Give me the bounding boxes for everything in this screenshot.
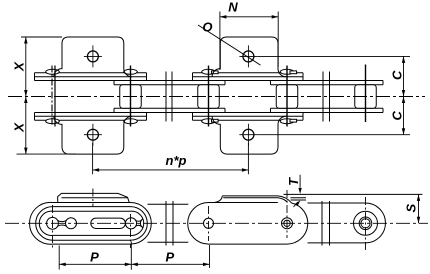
pin circle at x=365.5 (side view): [361, 219, 370, 228]
pin head (rivet) bottom at x=52.5 (plan): [46, 119, 60, 124]
pin head (rivet) bottom at x=208.5 (plan): [202, 119, 216, 124]
wire: inner plate bars top (x 114.0-225.0) (plan): [114, 81, 225, 85]
attachment plate tab lower-right (plan): [212, 116, 286, 154]
roller at pin x=208.5 (plan): [198, 85, 220, 109]
break lines right (side view): [322, 201, 330, 246]
pin head (rivet) top at x=287.0 (plan): [280, 69, 294, 74]
right attachment far tab bend lines + T extensions (side view): [291, 198, 307, 200]
pin circles at x=287 (side view): [282, 218, 293, 229]
dimension T pointer lines: [294, 175, 301, 207]
arrowheads dimension X: [24, 37, 28, 44]
attachment hole at (248.4,56.4) (plan): [243, 51, 254, 62]
slotted hole left (bone) in attachment plate: [47, 217, 59, 229]
attachment tab center mark (side view): [92, 189, 94, 208]
roller at pin x=365.5 (plan): [355, 85, 377, 109]
chain centerline (side view): [5, 222, 428, 224]
roller circle at x=365.5 (side view): [354, 211, 378, 235]
pin center marks (side view): [52, 205, 54, 250]
attachment hole at (248.4,134.7) (plan): [243, 129, 254, 140]
attachment plate tab upper-right (plan): [212, 37, 286, 77]
svg-text:X: X: [12, 61, 27, 72]
wire: inner plate bars bottom (x 270.5-383.0) (plan): [271, 108, 384, 112]
chain centerline (plan): [8, 96, 425, 98]
arrowheads dimension n*p: [93, 168, 100, 172]
inner link 1 plate visible segment (side view): [148, 204, 189, 242]
dimension N line: [220, 16, 278, 18]
pin circle at x=208.5 (side view): [204, 218, 214, 228]
pin head retainer tail at x=208.5 (plan): [212, 71, 219, 74]
svg-text:S: S: [403, 204, 418, 213]
bushing circle at x=365.5 (side view): [359, 217, 372, 230]
pin head (rivet) top at x=208.5 (plan): [202, 69, 216, 74]
dimension N extension lines: [220, 12, 278, 71]
pin head (rivet) bottom at x=287.0 (plan): [280, 119, 294, 124]
left attachment bent tab profile (side view): [58, 193, 130, 202]
wire: attachment + outer plate bars top (x 192.5-303.0) (plan): [193, 73, 304, 81]
dimension P line: [59, 263, 209, 265]
right attachment near tab platform + bends (side view): [215, 196, 292, 203]
dimension S line: [418, 194, 420, 223]
roller-width contour behind left link (side view stadium S2): [39, 211, 144, 235]
arrowheads dimension C: [402, 56, 405, 63]
pin head (rivet) bottom at x=130.5 (plan): [124, 119, 138, 124]
inner link 2 plate with right end arc (side view): [308, 203, 386, 243]
attachment hole at (92.9,134.7) (plan): [87, 129, 98, 140]
roller at pin x=287.0 (plan): [276, 85, 298, 109]
wire: attachment + outer plate bars top (x 34.5-146.5) (plan): [35, 73, 147, 81]
central slot in attachment plate: [91, 218, 126, 228]
pin at x=365.5 (plan): [365, 65, 367, 123]
arrowheads dimension N: [220, 15, 227, 19]
pin at x=130.5 (plan): [130, 66, 132, 127]
arrowheads dimension P: [59, 263, 65, 267]
wire: inner plate bars top (x 270.5-383.0) (plan): [271, 81, 384, 85]
break lines left (side view): [166, 201, 173, 246]
slotted hole right (bone) in attachment plate: [125, 218, 136, 229]
right attachment far tab long edge line (side view): [284, 193, 423, 195]
pin head retainer tail at x=287.0 (plan): [290, 71, 297, 74]
pin head (rivet) top at x=130.5 (plan): [124, 69, 138, 74]
pin at x=208.5 (plan): [208, 66, 210, 127]
svg-text:P: P: [165, 250, 174, 265]
wire: attachment + outer plate bars bottom (x 34.5-146.5) (plan): [35, 113, 147, 121]
left attachment far tab edge line (side view): [62, 197, 129, 199]
pin at x=287.0 (plan): [286, 66, 288, 127]
break lines left (plan): [166, 72, 172, 122]
svg-text:C: C: [390, 70, 405, 80]
break lines right (plan): [323, 72, 330, 122]
dimension n*p line: [93, 169, 249, 171]
svg-text:T: T: [286, 177, 301, 186]
dimension O leader line: [198, 25, 261, 65]
attachment plate tab upper-left (plan): [54, 37, 132, 77]
wire: attachment + outer plate bars bottom (x 192.5-303.0) (plan): [193, 113, 304, 121]
svg-text:P: P: [90, 250, 99, 265]
dimension X line: [25, 37, 27, 154]
svg-text:X: X: [12, 122, 27, 133]
dimension C extension lines: [258, 56, 411, 134]
svg-text:N: N: [228, 0, 238, 15]
pin head (rivet) top at x=52.5 (plan): [46, 69, 60, 74]
attachment plate tab lower-left (plan): [54, 116, 132, 154]
arrowheads dimension S: [417, 194, 420, 201]
dimension X extension lines: [17, 37, 77, 154]
svg-text:C: C: [390, 110, 405, 120]
wire: inner plate bars bottom (x 114.0-225.0) (plan): [114, 108, 225, 112]
dimension C line: [403, 56, 405, 134]
pin at x=52.5 (plan): [51, 66, 53, 127]
inner plate contour behind left link (side view stadium S1): [36, 207, 148, 241]
svg-text:n*p: n*p: [166, 153, 187, 168]
svg-text:O: O: [202, 19, 212, 34]
dimension P extension lines: [59, 242, 209, 270]
right attachment outer plate (side view): [188, 203, 287, 245]
attachment hole at (92.9,56.4) (plan): [87, 51, 98, 62]
roller at pin x=130.5 (plan): [120, 85, 142, 109]
left attachment outer plate (side view stadium): [30, 202, 152, 244]
dimension n*p extension lines: [93, 143, 249, 174]
